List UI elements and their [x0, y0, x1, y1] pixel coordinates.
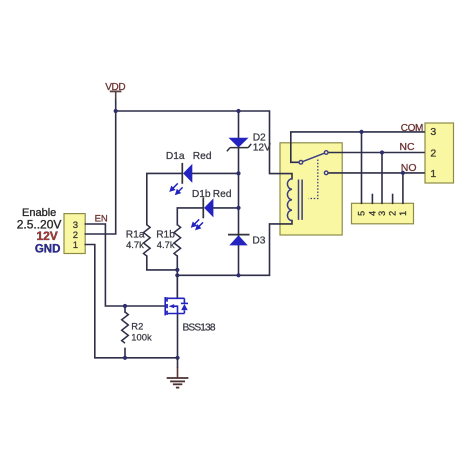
svg-text:2: 2 — [430, 148, 436, 160]
svg-text:COM: COM — [401, 123, 424, 134]
svg-text:Red: Red — [193, 151, 212, 162]
svg-text:12V: 12V — [36, 229, 57, 243]
svg-text:D1a: D1a — [166, 151, 185, 162]
svg-text:GND: GND — [35, 244, 61, 256]
svg-text:D3: D3 — [252, 236, 265, 247]
svg-text:Red: Red — [213, 189, 232, 200]
svg-text:4: 4 — [368, 211, 378, 216]
svg-text:R2: R2 — [131, 320, 143, 331]
svg-text:2: 2 — [388, 211, 398, 216]
svg-text:5: 5 — [357, 211, 367, 216]
svg-text:12V: 12V — [253, 142, 271, 153]
svg-text:D1b: D1b — [192, 189, 211, 200]
svg-text:1: 1 — [398, 211, 408, 216]
svg-text:NC: NC — [399, 141, 415, 153]
svg-text:NO: NO — [401, 162, 417, 174]
svg-text:3: 3 — [377, 211, 387, 216]
svg-text:VDD: VDD — [105, 82, 125, 93]
svg-text:4.7k: 4.7k — [126, 239, 144, 250]
svg-text:EN: EN — [95, 214, 108, 225]
svg-text:3: 3 — [430, 126, 436, 138]
svg-text:4.7k: 4.7k — [157, 239, 175, 250]
svg-text:1: 1 — [430, 168, 436, 180]
svg-text:100k: 100k — [131, 331, 152, 342]
svg-text:1: 1 — [73, 240, 78, 251]
svg-text:BSS138: BSS138 — [183, 323, 216, 334]
